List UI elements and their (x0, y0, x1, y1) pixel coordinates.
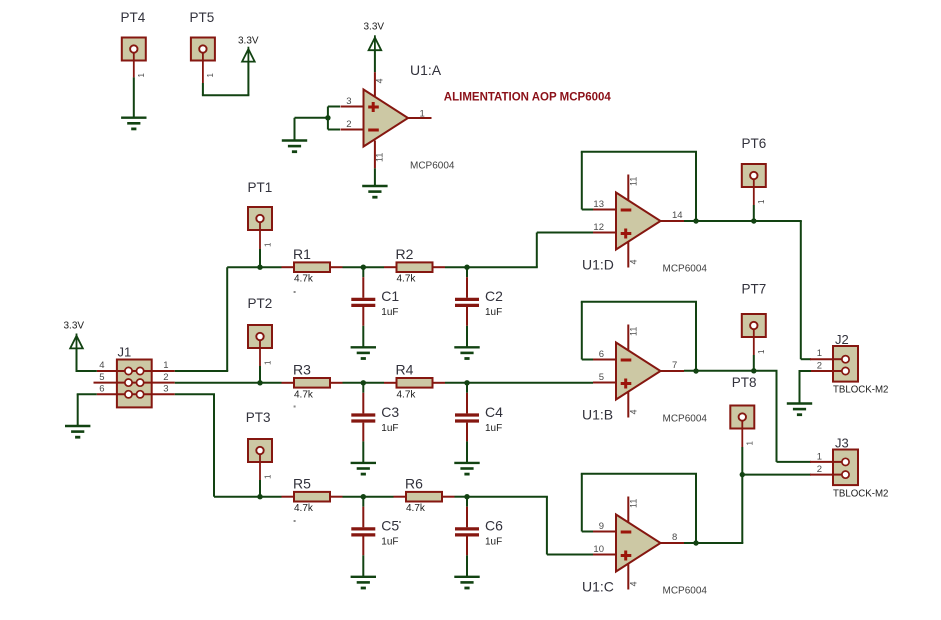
ground of C1 (351, 347, 376, 358)
svg-text:TBLOCK-M2: TBLOCK-M2 (833, 385, 888, 396)
capacitor C5 plates (351, 529, 375, 535)
wire U1:A inputs tied (328, 107, 340, 130)
connector J3 holes (842, 458, 849, 478)
svg-text:1: 1 (420, 109, 425, 120)
pin 10 stub of U1:C (593, 554, 616, 556)
node marker near R3 (294, 406, 296, 408)
svg-text:13: 13 (593, 199, 604, 210)
capacitor C2 plates (455, 299, 479, 305)
op-amp U1:B plus symbol (621, 379, 632, 389)
ground of J2 (787, 404, 812, 415)
op-amp U1:C body (616, 515, 661, 572)
svg-text:MCP6004: MCP6004 (663, 414, 708, 425)
pin 4 bottom stub of U1:B (627, 392, 629, 418)
junction node C4 (464, 380, 469, 385)
capacitor C2 bottom lead (466, 307, 468, 326)
svg-text:4.7k: 4.7k (294, 389, 314, 400)
wire row1 to U1:D pin 12 (466, 233, 593, 268)
resistor R5 4.7k (294, 492, 330, 502)
svg-text:R6: R6 (405, 475, 423, 491)
test point PT1 (248, 207, 272, 230)
connector J3 body (833, 450, 858, 486)
svg-text:1uF: 1uF (485, 423, 502, 434)
pin 4 stub of J1 (97, 370, 117, 372)
svg-text:2: 2 (817, 464, 822, 475)
pin 7 output stub of U1:B (661, 370, 685, 372)
resistor R4 leads (384, 382, 445, 384)
capacitor C4 bottom lead (466, 423, 468, 442)
pin 9 stub of U1:C (593, 531, 616, 533)
wire PT2 stem (259, 348, 261, 383)
node marker near C5 (399, 521, 401, 523)
svg-text:4: 4 (375, 78, 385, 83)
connector J1 internal pin wires (117, 371, 152, 394)
test point PT2 (248, 325, 272, 348)
svg-text:12: 12 (593, 222, 604, 233)
op-amp U1:C minus symbol (621, 531, 632, 534)
svg-text:9: 9 (599, 521, 604, 532)
svg-text:1: 1 (757, 349, 766, 354)
wire R4 to U1:B (445, 382, 593, 384)
resistor R4 4.7k (397, 378, 433, 388)
junction at output of U1:B (693, 368, 698, 373)
junction node C6 (464, 494, 469, 499)
op-amp U1:C plus symbol (621, 551, 632, 561)
wire row3 to U1:C pin 10 (466, 497, 593, 555)
wire C5 to ground (362, 555, 364, 577)
pin 13 stub of U1:D (593, 209, 616, 211)
svg-text:C2: C2 (485, 288, 503, 304)
svg-text:6: 6 (599, 349, 604, 360)
pin 4 bottom stub of U1:D (627, 242, 629, 268)
test point PT6 (742, 164, 766, 187)
svg-text:1: 1 (817, 348, 822, 359)
svg-text:3.3V: 3.3V (364, 22, 385, 33)
svg-text:R2: R2 (396, 246, 414, 262)
capacitor C5 bottom lead (362, 537, 364, 556)
svg-text:4.7k: 4.7k (397, 274, 417, 285)
capacitor C3 plates (351, 415, 375, 421)
wire PT7 stem (753, 337, 755, 371)
svg-text:1uF: 1uF (485, 307, 502, 318)
svg-text:R5: R5 (293, 475, 311, 491)
svg-text:1uF: 1uF (381, 537, 398, 548)
test point PT5 (191, 38, 215, 61)
wire U1:A pin 11 to ground (374, 168, 376, 186)
wire PT3 stem (259, 462, 261, 497)
svg-text:4.7k: 4.7k (294, 274, 314, 285)
svg-text:14: 14 (672, 210, 683, 221)
resistor R5 leads (282, 496, 343, 498)
svg-text:5: 5 (599, 372, 604, 383)
svg-text:PT2: PT2 (248, 296, 273, 311)
wire R3 to R4 (343, 382, 385, 384)
wire R6 to U1:C (455, 496, 468, 498)
pin 2 stub of U1:A (341, 129, 364, 131)
op-amp U1:D minus symbol (621, 209, 632, 212)
wire PT5 to 3.3V (202, 61, 250, 95)
svg-text:PT4: PT4 (121, 10, 146, 25)
svg-text:11: 11 (629, 177, 639, 186)
capacitor C1 bottom lead (362, 307, 364, 326)
wire U1:A tie to ground (295, 118, 328, 141)
svg-text:PT7: PT7 (742, 282, 767, 297)
connector J1 body (117, 360, 152, 408)
pin 2 stub of J1 (152, 382, 175, 384)
power +3.3V symbol above U1:A (369, 35, 382, 50)
svg-text:C5: C5 (381, 518, 399, 534)
wire J1 pin 6 to ground (77, 394, 97, 426)
svg-text:1uF: 1uF (381, 423, 398, 434)
svg-text:2: 2 (163, 372, 168, 383)
pin 4 bottom stub of U1:C (627, 564, 629, 590)
capacitor C5 top lead (362, 497, 364, 528)
capacitor C6 bottom lead (466, 537, 468, 556)
junction node PT2/row2 (257, 380, 262, 385)
svg-text:11: 11 (629, 327, 639, 336)
junction node PT1/row1 (257, 265, 262, 270)
wire J2 pin 2 to ground (799, 371, 812, 404)
wire 3.3V to U1:A pin 4 (374, 50, 376, 72)
wire U1:D output to PT6/J2 (684, 221, 811, 359)
pin 8 output stub of U1:C (661, 542, 685, 544)
ground of C5 (351, 577, 376, 588)
op-amp U1:A body (364, 90, 409, 147)
power +3.3V symbol near J1 (70, 334, 83, 349)
svg-text:11: 11 (375, 153, 385, 162)
wire C4 to ground (466, 441, 468, 463)
pin 5 stub of J1 (94, 382, 117, 384)
svg-text:3: 3 (346, 96, 351, 107)
node marker near R1 (294, 291, 296, 293)
ground of C3 (351, 463, 376, 474)
resistor R3 leads (282, 382, 343, 384)
pin 12 stub of U1:D (593, 232, 616, 234)
resistor R1 leads (282, 266, 343, 268)
test point PT3 (248, 439, 272, 462)
svg-text:1: 1 (263, 242, 272, 247)
svg-text:TBLOCK-M2: TBLOCK-M2 (833, 489, 888, 500)
svg-text:ALIMENTATION AOP MCP6004: ALIMENTATION AOP MCP6004 (444, 92, 612, 104)
junction node C5 (361, 494, 366, 499)
wire PT8 stem (741, 429, 743, 475)
svg-text:J3: J3 (835, 436, 849, 451)
pin 1 stub of J3 (810, 461, 833, 463)
svg-text:C1: C1 (381, 288, 399, 304)
wire C1 to ground (362, 326, 364, 348)
ground of U1:A input (282, 141, 307, 152)
wire PT5 stem (202, 61, 204, 84)
pin 4 stub of U1:A (374, 72, 376, 96)
junction at output of U1:D (693, 218, 698, 223)
svg-text:1: 1 (263, 360, 272, 365)
svg-text:5: 5 (99, 372, 104, 383)
pin 2 stub of J2 (810, 370, 833, 372)
svg-text:U1:A: U1:A (410, 62, 442, 78)
ground of J1 (65, 426, 90, 437)
svg-text:U1:B: U1:B (582, 407, 613, 423)
svg-text:7: 7 (672, 360, 677, 371)
resistor R6 leads (394, 496, 455, 498)
ground of C4 (454, 463, 479, 474)
test point PT7 (742, 314, 766, 337)
wire C3 to ground (362, 441, 364, 463)
junction node C3 (361, 380, 366, 385)
wire J1 pin 1 up to row 1 (175, 267, 282, 371)
op-amp U1:B minus symbol (621, 359, 632, 362)
junction node C1 (361, 265, 366, 270)
svg-text:8: 8 (672, 532, 677, 543)
junction U1:A inverting tie (325, 115, 330, 120)
svg-text:3.3V: 3.3V (64, 321, 85, 332)
connector J1 holes (125, 367, 144, 398)
capacitor C1 top lead (362, 267, 364, 298)
svg-text:R4: R4 (396, 361, 414, 377)
svg-text:4.7k: 4.7k (397, 389, 417, 400)
wire 3.3V to J1 pin 4 (76, 348, 97, 372)
svg-text:4: 4 (629, 409, 639, 414)
svg-text:1uF: 1uF (381, 307, 398, 318)
svg-text:C3: C3 (381, 404, 399, 420)
test point PT4 (122, 38, 146, 61)
svg-text:J2: J2 (835, 332, 849, 347)
svg-text:3: 3 (163, 384, 168, 395)
pin 2 stub of J3 (810, 474, 833, 476)
wire U1:B output to J3 pin 1 (684, 371, 811, 462)
pin 11 stub of U1:A (374, 141, 376, 169)
pin 11 top stub of U1:D (627, 175, 629, 201)
svg-text:1: 1 (163, 360, 168, 371)
svg-text:11: 11 (629, 499, 639, 508)
ground of C6 (454, 577, 479, 588)
svg-text:J1: J1 (118, 345, 132, 360)
wire C6 to ground (466, 555, 468, 577)
op-amp U1:B body (616, 343, 661, 400)
svg-text:U1:C: U1:C (582, 579, 614, 595)
wire feedback loop of U1:D (581, 152, 697, 221)
wire J1 pin 2 to row 2 (175, 382, 282, 384)
svg-text:10: 10 (593, 544, 604, 555)
svg-text:1: 1 (817, 451, 822, 462)
svg-text:PT1: PT1 (248, 180, 273, 195)
svg-text:1: 1 (206, 73, 215, 78)
svg-text:MCP6004: MCP6004 (410, 161, 455, 172)
test point PT8 (730, 406, 754, 429)
pin 1 stub of J2 (810, 358, 833, 360)
op-amp U1:A minus symbol (368, 129, 379, 132)
junction node PT3/row3 (257, 494, 262, 499)
svg-text:6: 6 (99, 384, 104, 395)
ground of PT4 (121, 118, 146, 129)
svg-text:4: 4 (629, 259, 639, 264)
svg-text:U1:D: U1:D (582, 257, 614, 273)
pin 5 stub of U1:B (593, 382, 616, 384)
junction node C2 (464, 265, 469, 270)
pin 1 stub of J1 (152, 370, 175, 372)
pin 11 top stub of U1:B (627, 325, 629, 351)
connector J2 body (833, 346, 858, 382)
junction PT6 (751, 218, 756, 223)
wire J1 pin 3 down to row 3 (175, 394, 282, 496)
svg-text:2: 2 (817, 361, 822, 372)
svg-text:1uF: 1uF (485, 537, 502, 548)
node marker near R5 (294, 520, 296, 522)
svg-text:3.3V: 3.3V (238, 36, 259, 47)
resistor R3 4.7k (294, 378, 330, 388)
junction PT8/J3 pin 2 (740, 472, 745, 477)
resistor R2 leads (384, 266, 445, 268)
svg-text:2: 2 (346, 119, 351, 130)
pin 6 stub of U1:B (593, 359, 616, 361)
capacitor C3 bottom lead (362, 423, 364, 442)
svg-text:1: 1 (263, 474, 272, 479)
pin 3 stub of U1:A (341, 106, 364, 108)
svg-text:4.7k: 4.7k (406, 503, 426, 514)
svg-text:PT6: PT6 (742, 136, 767, 151)
ground below U1:A (362, 186, 387, 197)
pin 11 top stub of U1:C (627, 497, 629, 523)
svg-text:4: 4 (99, 360, 104, 371)
svg-text:MCP6004: MCP6004 (663, 586, 708, 597)
capacitor C6 plates (455, 529, 479, 535)
resistor R6 4.7k (406, 492, 442, 502)
junction at output of U1:C (693, 540, 698, 545)
wire PT4 to ground (133, 61, 135, 118)
svg-text:4.7k: 4.7k (294, 503, 314, 514)
connector J2 internal pin wires (833, 359, 846, 371)
capacitor C3 top lead (362, 383, 364, 414)
wire R1 to R2 (343, 266, 385, 268)
capacitor C2 top lead (466, 267, 468, 298)
svg-text:R1: R1 (293, 246, 311, 262)
pin 1 output stub of U1:A (408, 117, 432, 119)
svg-text:1: 1 (757, 199, 766, 204)
svg-text:4: 4 (629, 581, 639, 586)
svg-text:1: 1 (746, 441, 755, 446)
op-amp U1:D plus symbol (621, 229, 632, 239)
resistor R2 4.7k (397, 262, 433, 272)
svg-text:PT8: PT8 (732, 375, 757, 390)
connector J2 holes (842, 356, 849, 375)
op-amp U1:A plus symbol (368, 102, 379, 112)
power +3.3V symbol near PT5 (242, 47, 255, 62)
wire PT6 stem (753, 187, 755, 221)
wire feedback loop of U1:C (581, 474, 697, 543)
svg-text:C4: C4 (485, 404, 503, 420)
wire R2 to U1:D (445, 266, 467, 268)
op-amp U1:D body (616, 193, 661, 250)
capacitor C1 plates (351, 299, 375, 305)
pin 14 output stub of U1:D (661, 220, 685, 222)
junction PT7 (751, 368, 756, 373)
capacitor C6 top lead (466, 497, 468, 528)
pin 3 stub of J1 (152, 393, 175, 395)
connector J3 internal pin wires (833, 462, 846, 475)
svg-text:R3: R3 (293, 361, 311, 377)
wire PT1 stem (259, 230, 261, 267)
resistor R1 4.7k (294, 262, 330, 272)
pin 6 stub of J1 (97, 393, 117, 395)
capacitor C4 plates (455, 415, 479, 421)
wire C2 to ground (466, 326, 468, 348)
svg-text:MCP6004: MCP6004 (663, 264, 708, 275)
wire R5 to R6 (343, 496, 394, 498)
svg-text:C6: C6 (485, 518, 503, 534)
ground of C2 (454, 347, 479, 358)
wire U1:C output to J3 pin 2 (684, 475, 811, 543)
svg-text:1: 1 (137, 73, 146, 78)
capacitor C4 top lead (466, 383, 468, 414)
svg-text:PT5: PT5 (190, 10, 215, 25)
wire feedback loop of U1:B (581, 302, 697, 371)
svg-text:PT3: PT3 (246, 410, 271, 425)
